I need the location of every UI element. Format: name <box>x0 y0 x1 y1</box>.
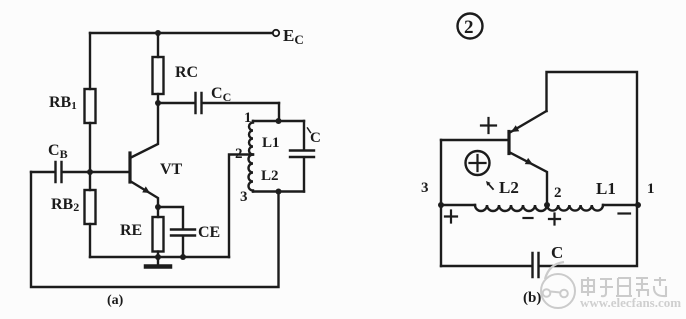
svg-text:CB: CB <box>48 142 68 161</box>
svg-text:RC: RC <box>175 64 198 81</box>
resistor RB2 <box>85 190 96 224</box>
wire below RB2 <box>89 224 91 257</box>
polarity + under node2 <box>549 214 560 225</box>
svg-text:1: 1 <box>244 110 252 126</box>
node base junction <box>87 169 93 175</box>
wire CC to tank top <box>278 103 280 120</box>
svg-text:CE: CE <box>198 224 220 241</box>
capacitor C (b) <box>533 253 539 277</box>
svg-text:2: 2 <box>554 185 562 201</box>
svg-text:(a): (a) <box>107 293 124 308</box>
svg-text:RB2: RB2 <box>51 196 79 214</box>
svg-text:VT: VT <box>160 161 183 178</box>
svg-text:L1: L1 <box>262 135 280 151</box>
wire tank bottom <box>253 190 304 192</box>
node 1 (b) <box>635 202 641 208</box>
wire node3 to L2 <box>441 204 475 206</box>
inductor L2 (a) <box>249 155 254 192</box>
polarity + near node3 <box>445 211 457 223</box>
svg-text:2: 2 <box>464 17 474 38</box>
source circle + <box>466 151 490 175</box>
resistor RB1 <box>85 89 96 123</box>
svg-text:CC: CC <box>211 85 231 104</box>
resistor RE <box>157 207 159 217</box>
wire bottom rail left (b) <box>441 265 531 267</box>
ground <box>157 257 159 265</box>
capacitor CE <box>158 207 195 257</box>
svg-text:1: 1 <box>647 181 655 197</box>
node tank top <box>276 118 282 124</box>
svg-text:3: 3 <box>240 189 248 205</box>
inductor L2 (b) <box>475 205 547 211</box>
node CE bottom <box>180 254 186 260</box>
svg-text:2: 2 <box>235 146 243 162</box>
capacitor C (a) <box>290 121 314 192</box>
transistor VT <box>128 153 131 182</box>
wire between RB1 and RB2 <box>89 123 91 190</box>
node 2 (b) <box>544 202 550 208</box>
node RE bottom <box>155 254 161 260</box>
svg-text:EC: EC <box>283 26 304 47</box>
wire left vertical (b) <box>440 140 442 266</box>
resistor RC <box>157 33 159 57</box>
wire emitter bottom rail <box>90 256 229 258</box>
node junction top of RC <box>155 30 161 36</box>
svg-text:RE: RE <box>120 222 142 239</box>
node tank bottom <box>276 189 282 195</box>
svg-text:C: C <box>310 130 321 146</box>
svg-text:(b): (b) <box>523 290 541 306</box>
svg-text:C: C <box>551 243 563 262</box>
label + above base <box>481 118 496 133</box>
polarity - near node1 <box>619 212 631 214</box>
terminal EC <box>273 30 279 36</box>
label circled 2 <box>458 14 483 39</box>
wire bottom rail right (b) <box>540 204 637 266</box>
svg-text:3: 3 <box>421 180 429 196</box>
transistor (b) <box>507 132 510 154</box>
wire top supply rail (a) <box>90 32 273 34</box>
wire top loop (b) <box>547 72 638 204</box>
watermark text 电子发烧友 <box>582 277 666 297</box>
svg-text:L2: L2 <box>261 168 279 184</box>
node 3 (b) <box>438 202 444 208</box>
capacitor CC <box>158 93 279 113</box>
polarity - under L2 <box>524 217 533 219</box>
svg-text:L2: L2 <box>499 178 519 197</box>
inductor L1 (b) <box>547 205 603 211</box>
wire tap2 to emitter rail <box>229 155 252 258</box>
source arrow <box>489 184 494 189</box>
wire feedback loop <box>31 172 279 287</box>
svg-text:L1: L1 <box>596 179 616 198</box>
watermark logo <box>541 262 575 308</box>
svg-text:RB1: RB1 <box>49 94 77 112</box>
node collector junction <box>155 100 161 106</box>
svg-text:www.elecfans.com: www.elecfans.com <box>580 295 681 310</box>
wire L1 to node1 <box>603 204 638 206</box>
inductor L1 (a) <box>249 121 253 155</box>
wire base <box>90 171 129 173</box>
wire left vertical upper <box>89 33 91 89</box>
capacitor CB <box>31 162 90 182</box>
node emitter junction <box>155 204 161 210</box>
wire tank top <box>253 120 304 122</box>
